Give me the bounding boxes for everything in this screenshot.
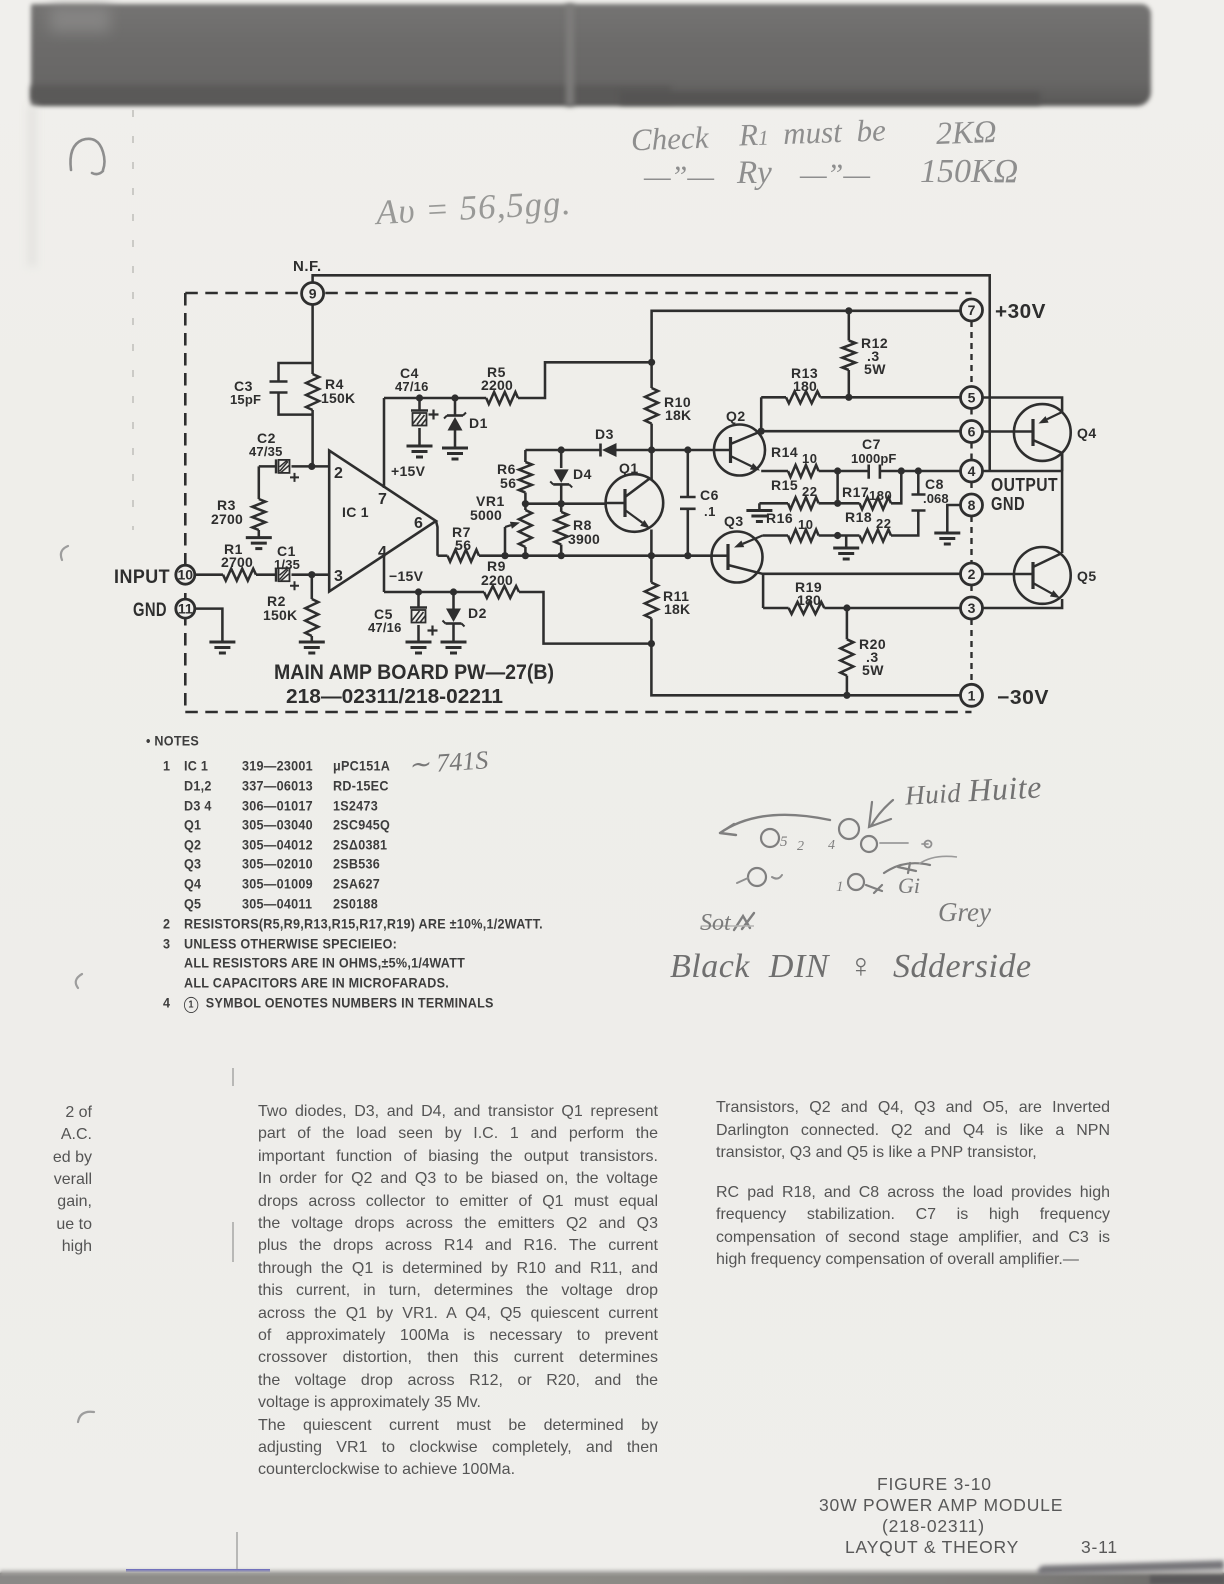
wire Q2 emitter to output line (761, 470, 788, 473)
svg-text:9: 9 (309, 286, 317, 302)
svg-text:2200: 2200 (481, 377, 513, 393)
svg-text:18K: 18K (664, 601, 690, 617)
svg-text:.1: .1 (704, 504, 716, 519)
svg-text:5W: 5W (862, 662, 884, 678)
svg-text:R18: R18 (845, 509, 872, 525)
faint margin tick marks (61, 546, 237, 1584)
svg-text:Q2: Q2 (726, 408, 746, 424)
wire output node right (terminal 4 to Q4 emitter and Q5 collector) (982, 453, 1062, 553)
svg-text:−15V: −15V (389, 568, 424, 584)
transistor Q2 (714, 408, 765, 476)
resistor R17 180 (834, 471, 901, 509)
bottom scan bar (0, 1573, 1224, 1584)
svg-text:22: 22 (876, 516, 891, 531)
faint page crease line left (132, 110, 134, 530)
svg-text:2700: 2700 (211, 511, 243, 527)
capacitor C6 .1 (680, 446, 719, 555)
wire Q5 base from terminal 2 (982, 573, 1014, 576)
op-amp IC1 (329, 451, 436, 592)
svg-text:1: 1 (968, 687, 976, 703)
terminal 1 -30V (961, 684, 1050, 709)
svg-text:Q4: Q4 (1077, 425, 1097, 441)
svg-text:10: 10 (178, 567, 194, 583)
svg-text:5000: 5000 (470, 507, 502, 523)
blue pen line bottom (126, 1569, 270, 1572)
svg-text:1000pF: 1000pF (851, 451, 896, 466)
svg-text:C6: C6 (700, 487, 719, 503)
svg-text:−30V: −30V (997, 687, 1049, 709)
svg-text:8: 8 (968, 497, 976, 513)
svg-text:5: 5 (968, 390, 976, 406)
svg-text:5W: 5W (864, 361, 886, 377)
svg-text:56: 56 (500, 475, 517, 491)
terminal 5 (961, 387, 983, 409)
transistor Q4 (1014, 404, 1097, 471)
svg-text:Q3: Q3 (724, 513, 744, 529)
resistor R15 22 (759, 477, 837, 509)
terminal 3 (961, 597, 983, 619)
svg-text:180: 180 (797, 592, 821, 608)
svg-text:D4: D4 (573, 466, 592, 482)
terminal 2 (961, 563, 983, 585)
resistor R6 56 (497, 450, 532, 504)
body text middle column (258, 1102, 658, 1121)
svg-text:15pF: 15pF (230, 392, 261, 407)
resistor R9 2200 (481, 558, 655, 647)
svg-text:7: 7 (378, 491, 387, 508)
svg-text:2: 2 (968, 566, 976, 582)
svg-text:18K: 18K (665, 407, 691, 423)
ground tap between R16 and R18 (833, 536, 859, 560)
svg-text:GND: GND (133, 600, 167, 621)
node N.F. label (293, 258, 322, 275)
svg-text:47/16: 47/16 (395, 379, 429, 394)
terminal 8 (961, 494, 983, 516)
ground for input (209, 642, 235, 653)
svg-text:10: 10 (802, 451, 817, 466)
top scanner dark bar (31, 4, 1151, 106)
terminal 7 +30V (961, 299, 1047, 323)
svg-text:R15: R15 (771, 477, 798, 493)
left margin text fragments (30, 1103, 92, 1122)
node -15V label (389, 568, 424, 584)
resistor R3 2700 (211, 466, 265, 537)
svg-text:2: 2 (334, 465, 343, 482)
resistor R7 56 (438, 524, 713, 562)
svg-text:10: 10 (798, 517, 813, 532)
wire +15V rail to R5 (384, 394, 486, 401)
capacitor C3 (230, 363, 313, 415)
resistor R20 .3 5W (840, 608, 886, 695)
transistor Q5 (1014, 547, 1097, 604)
wire R14/R15 vertical link (836, 471, 839, 503)
terminal 8 ground tap (934, 505, 961, 544)
diode D2 zener (443, 592, 487, 642)
wire op-amp V- pin 4 (383, 556, 386, 592)
resistor R8 3900 (555, 504, 600, 556)
svg-text:56: 56 (455, 537, 472, 553)
svg-text:+30V: +30V (995, 301, 1046, 323)
svg-text:218—02311/218-02211: 218—02311/218-02211 (286, 685, 503, 708)
ground below C4 (407, 446, 433, 457)
svg-text:3900: 3900 (568, 531, 600, 547)
schematic dashed board outline (185, 293, 971, 712)
terminal 9 (302, 283, 324, 305)
svg-text:IC 1: IC 1 (342, 504, 369, 520)
resistor R10 18K (645, 362, 691, 450)
transistor Q3 (712, 513, 763, 583)
svg-text:3: 3 (334, 568, 343, 585)
wire inverting input node pin 2 (259, 463, 329, 470)
wire Q3 emitter line (763, 534, 789, 537)
resistor R14 10 (771, 444, 868, 477)
svg-text:INPUT: INPUT (114, 567, 170, 588)
junction Q1 collector / D3 / R10 (648, 446, 655, 453)
svg-text:2200: 2200 (481, 572, 513, 588)
capacitor C5 47/16 (368, 592, 438, 642)
capacitor C8 .068 (912, 471, 949, 511)
wire bias node to Q1 base (522, 500, 606, 507)
board name text (274, 660, 554, 708)
resistor R5 2200 (481, 359, 655, 404)
body text right column (716, 1098, 1110, 1117)
svg-text:150K: 150K (321, 390, 355, 406)
svg-text:22: 22 (802, 484, 817, 499)
wire -15V rail to R9 (384, 588, 484, 595)
resistor R19 180 (763, 579, 961, 614)
ground at R15 (746, 503, 772, 521)
wire +30V rail (652, 307, 961, 362)
handwritten annotation scribbles near notes (connector sketch) (702, 800, 957, 930)
resistor R13 180 (761, 365, 961, 403)
terminal 11 GND (133, 599, 195, 621)
svg-text:4: 4 (378, 544, 387, 561)
svg-text:47/16: 47/16 (368, 620, 402, 635)
node +15V label (391, 463, 426, 479)
svg-text:D2: D2 (468, 605, 487, 621)
svg-text:R16: R16 (766, 510, 793, 526)
handwritten curl top-left (70, 139, 104, 174)
svg-text:D3: D3 (595, 426, 614, 442)
svg-text:7: 7 (968, 302, 976, 318)
svg-text:6: 6 (968, 424, 976, 440)
wire terminal 2 line / Q3 collector to Q5 base (763, 573, 962, 576)
wire Q5 emitter to terminal 3 line (982, 599, 1062, 608)
resistor R2 150K (263, 575, 318, 642)
resistor R18 22 (845, 509, 918, 542)
wire Q4 base from terminal 6 (982, 430, 1014, 433)
resistor R16 10 (766, 510, 860, 542)
handwritten text (pencil) (630, 120, 709, 159)
faint left margin shade (28, 106, 36, 266)
capacitor C1 1/35 (274, 543, 300, 590)
terminal 4 OUTPUT (961, 460, 1059, 514)
svg-text:1/35: 1/35 (274, 557, 300, 572)
svg-text:180: 180 (869, 488, 892, 503)
junction dots on output bias rail (501, 552, 691, 559)
svg-text:.068: .068 (923, 491, 949, 506)
ground below D1 (442, 448, 468, 459)
diode D4 (550, 450, 592, 504)
wire terminal 11 to ground (196, 609, 222, 642)
notes block (146, 733, 199, 749)
resistor R12 .3 5W (842, 311, 888, 398)
junction dots on output line (834, 467, 922, 474)
wire terminal 9 to R4/C3 node (311, 304, 314, 363)
svg-text:Q1: Q1 (619, 460, 639, 476)
wire Q2 collector riser to R13 (758, 397, 765, 435)
svg-text:150K: 150K (263, 607, 297, 623)
svg-text:OUTPUT: OUTPUT (991, 475, 1058, 495)
svg-text:3: 3 (968, 600, 976, 616)
svg-text:11: 11 (178, 601, 193, 617)
figure caption (877, 1474, 992, 1495)
wire N.F. feedback line from terminal 9 to output node (313, 275, 990, 471)
svg-text:GND: GND (991, 494, 1025, 514)
svg-text:4: 4 (968, 463, 976, 479)
capacitor C2 47/35 (249, 430, 299, 482)
svg-text:D1: D1 (469, 415, 488, 431)
capacitor C7 1000pF (851, 436, 961, 479)
ground below R3 (246, 538, 272, 549)
ground below C5 (406, 642, 432, 653)
wire -30V rail (651, 644, 961, 699)
potentiometer VR1 5000 (470, 493, 532, 556)
wire op-amp V+ pin 7 (383, 398, 386, 488)
wire terminal 6 line / Q2 collector to Q4 base (761, 430, 961, 433)
terminal 10 INPUT (114, 565, 195, 588)
wire Q2 base line (652, 449, 714, 452)
diode D3 (525, 426, 651, 457)
svg-text:180: 180 (793, 378, 817, 394)
terminal 6 (961, 421, 983, 443)
diode D1 zener (444, 398, 488, 448)
capacitor C4 47/16 (395, 365, 439, 446)
svg-text:C7: C7 (862, 436, 881, 452)
resistor R4 150K (306, 363, 355, 466)
transistor Q1 (606, 450, 664, 556)
dashed terminal column (970, 321, 972, 685)
svg-text:+15V: +15V (391, 463, 426, 479)
wire Q3 collector to R19 (762, 574, 765, 608)
resistor R11 18K (645, 556, 690, 644)
svg-text:47/35: 47/35 (249, 444, 283, 459)
svg-text:C8: C8 (925, 476, 944, 492)
svg-text:R17: R17 (842, 484, 869, 500)
wire op-amp output pin 6 to R7 (436, 521, 438, 556)
svg-text:Q5: Q5 (1077, 568, 1097, 584)
resistor R1 2700 (221, 541, 256, 581)
wire output loop upper (terminal 5 to Q4 collector) (982, 398, 1062, 413)
svg-text:2700: 2700 (221, 554, 253, 570)
svg-text:R14: R14 (771, 444, 798, 460)
wire input to pin 3 (196, 571, 329, 578)
svg-text:6: 6 (414, 515, 423, 532)
ground below D2 (441, 642, 467, 653)
svg-text:N.F.: N.F. (293, 258, 322, 275)
top bar darker patches (31, 86, 671, 101)
ground below R2 (299, 642, 325, 653)
svg-text:MAIN AMP BOARD PW—27(B): MAIN AMP BOARD PW—27(B) (274, 660, 554, 684)
